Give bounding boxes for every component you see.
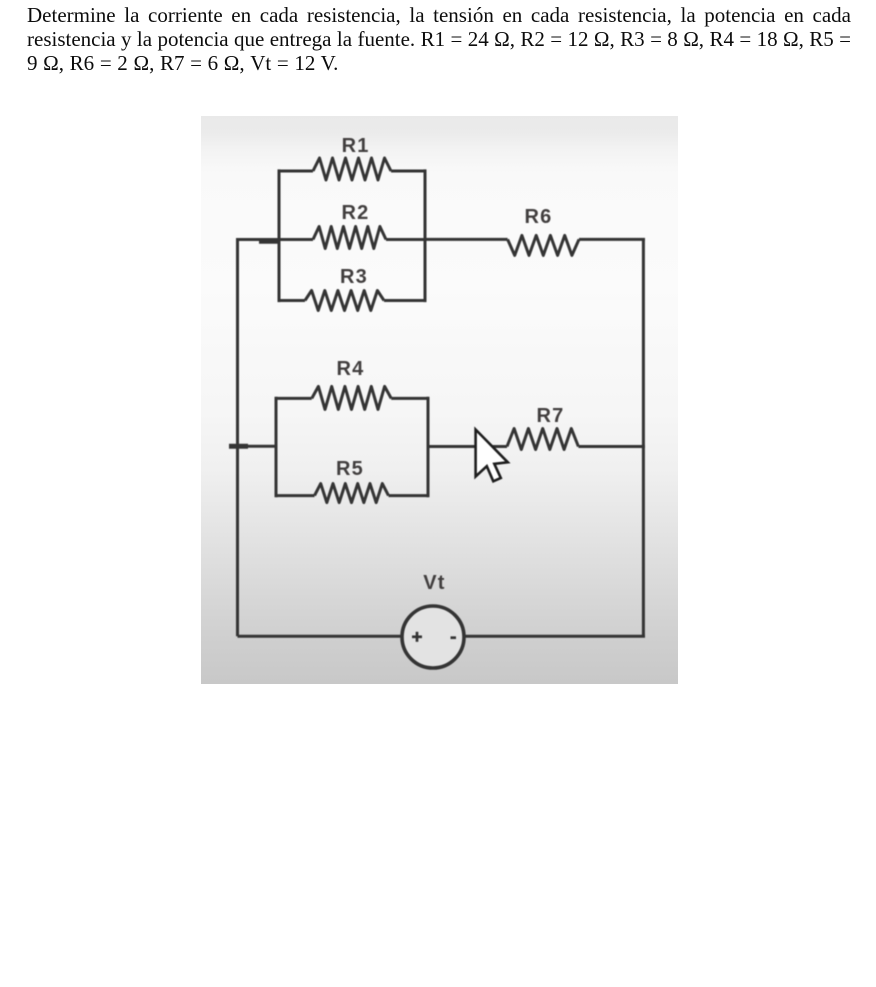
resistor R3 <box>279 299 305 302</box>
svg-text:R1: R1 <box>342 135 370 157</box>
resistor R6 <box>508 235 579 255</box>
wire: outer right vertical <box>642 239 645 637</box>
svg-text:R7: R7 <box>537 405 565 427</box>
resistor R4 <box>276 397 312 400</box>
plus terminal <box>412 635 422 638</box>
resistor R7 <box>507 429 578 450</box>
svg-text:R3: R3 <box>340 266 368 288</box>
circuit screenshot panel <box>201 116 678 684</box>
wire: R6 to right rail <box>579 238 645 241</box>
mouse cursor <box>476 430 508 482</box>
wire: box1 right vertical <box>424 169 427 302</box>
svg-text:R5: R5 <box>336 458 364 480</box>
resistor R2 <box>279 238 313 241</box>
minus terminal <box>451 636 457 639</box>
svg-text:R2: R2 <box>342 202 370 224</box>
wire: left stub to parallel box 2 <box>236 445 277 448</box>
wire: bus from box1 to R6 <box>425 238 508 241</box>
resistor R5 <box>276 494 315 497</box>
wire: bus from box2 to R7 <box>428 445 507 448</box>
wire: box2 right vertical <box>427 397 430 497</box>
wire: source to bottom right <box>464 635 646 638</box>
wire: R7 to right rail <box>578 445 645 448</box>
node A (junction of left bus and box1) <box>259 240 280 244</box>
wire: outer left vertical <box>236 239 239 636</box>
wire: bottom left to source <box>238 635 404 638</box>
svg-text:R6: R6 <box>525 206 553 228</box>
voltage source Vt <box>402 606 464 668</box>
resistor R1 <box>279 170 313 173</box>
svg-text:R4: R4 <box>337 358 365 380</box>
svg-text:Vt: Vt <box>423 572 445 594</box>
wire: box2 left vertical <box>275 397 278 497</box>
wire: top-left stub to parallel box 1 <box>236 238 280 241</box>
problem statement text <box>27 4 851 76</box>
node B (junction of left bus and box2) <box>229 444 248 449</box>
wire: box1 left vertical <box>278 169 281 302</box>
